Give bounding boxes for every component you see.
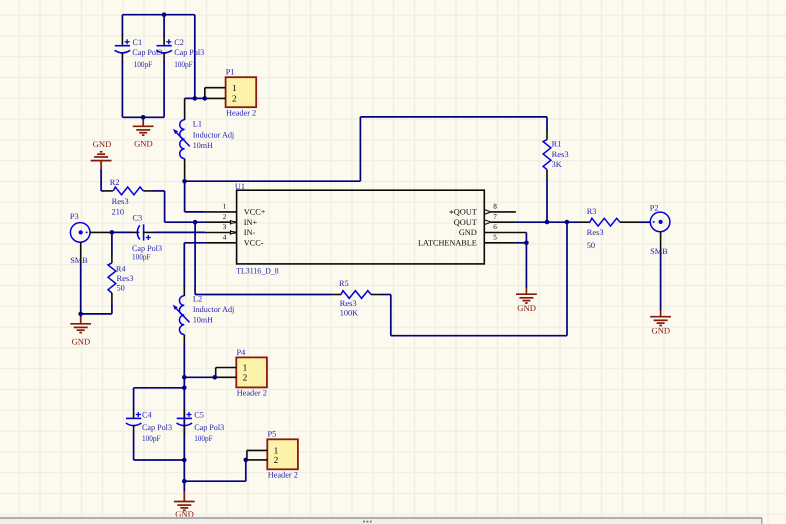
wire C1 bottom vertical bbox=[121, 61, 123, 117]
R4 bottom pin bbox=[111, 293, 113, 303]
svg-text:P2: P2 bbox=[650, 203, 659, 212]
scrollbar gripper dots bbox=[363, 521, 371, 523]
U1 pin 1 (VCC+) bbox=[205, 211, 237, 213]
R1 bottom pin bbox=[546, 170, 548, 180]
connector P4 (Header 2) bbox=[236, 357, 267, 387]
svg-text:5: 5 bbox=[493, 234, 497, 242]
wire gnd2 stem bbox=[100, 161, 102, 171]
ground GND1 bbox=[133, 126, 154, 135]
svg-text:100pF: 100pF bbox=[142, 434, 161, 443]
P1 pin1-pin2 drop wire bbox=[204, 88, 206, 99]
svg-text:LATCHENABLE: LATCHENABLE bbox=[418, 239, 477, 248]
svg-text:Res3: Res3 bbox=[587, 228, 604, 237]
node P5 tap bbox=[182, 479, 187, 484]
connector P3 (SMB) bbox=[70, 223, 90, 243]
svg-text:IN+: IN+ bbox=[244, 218, 258, 227]
U1 pin 5 (LATCHENABLE) bbox=[484, 242, 516, 244]
svg-text:R4: R4 bbox=[116, 264, 127, 273]
R2 right pin bbox=[143, 190, 154, 192]
wire feedback riser bbox=[566, 222, 568, 336]
node feedback junction bbox=[565, 220, 570, 225]
P5 pin 1 bbox=[247, 449, 267, 451]
svg-text:Res3: Res3 bbox=[112, 197, 129, 206]
U1 pin 3 (IN-) bbox=[205, 232, 231, 234]
node R1 bottom junction bbox=[545, 220, 550, 225]
R3 left pin bbox=[578, 221, 590, 223]
svg-text:GND: GND bbox=[134, 138, 153, 148]
C1 top pin bbox=[121, 35, 123, 45]
wire pin6 drop bbox=[525, 233, 527, 243]
R5 left pin bbox=[330, 294, 341, 296]
wire P5 drop bbox=[245, 460, 247, 481]
svg-text:C5: C5 bbox=[194, 411, 204, 420]
svg-text:Header 2: Header 2 bbox=[226, 109, 256, 118]
wire gnd3 stem bbox=[80, 314, 82, 318]
wire VCC+ riser bbox=[359, 117, 361, 181]
svg-text:Res3: Res3 bbox=[340, 299, 357, 308]
wire C4 bottom vertical bbox=[133, 434, 135, 460]
svg-text:L1: L1 bbox=[193, 120, 202, 129]
wire R5 drop bbox=[390, 295, 392, 336]
wire C2 top vertical bbox=[163, 15, 165, 37]
svg-text:210: 210 bbox=[112, 208, 124, 217]
ground GND5 bbox=[650, 317, 671, 326]
svg-text:IN-: IN- bbox=[244, 228, 256, 237]
wire top to R1 bbox=[360, 116, 547, 118]
horizontal scrollbar bbox=[0, 517, 762, 524]
P4 pin 1 bbox=[216, 367, 237, 369]
svg-text:C2: C2 bbox=[174, 38, 184, 47]
wire pin5 ext bbox=[516, 242, 527, 244]
svg-text:2: 2 bbox=[274, 456, 279, 466]
wire gnd6 stem bbox=[183, 491, 185, 502]
wire R4 top bbox=[111, 232, 113, 253]
wire to pin1 bbox=[185, 211, 205, 213]
svg-text:SMB: SMB bbox=[650, 247, 668, 256]
node P3/C3/R4 junction bbox=[110, 230, 115, 235]
ground GND6 bbox=[174, 502, 195, 511]
C4 top pin bbox=[133, 408, 135, 418]
node C4C5 bottom bbox=[182, 458, 187, 463]
C4 bottom pin bbox=[133, 425, 135, 435]
wire gnd4 stem bbox=[525, 288, 527, 294]
wire R4 to P3 gnd bbox=[81, 313, 112, 315]
L1 adjust arrow bbox=[177, 133, 190, 147]
svg-text:P1: P1 bbox=[226, 68, 235, 77]
resistor R3 bbox=[590, 218, 620, 226]
svg-text:C4: C4 bbox=[142, 411, 153, 420]
wire R4 bottom bbox=[111, 303, 113, 314]
svg-text:1: 1 bbox=[223, 203, 227, 211]
P3 bottom pin bbox=[80, 242, 82, 263]
P5 pin 2 bbox=[246, 459, 267, 461]
ground GND4 bbox=[516, 294, 537, 303]
U1 pin 6 (GND) bbox=[484, 232, 526, 234]
C2 top pin bbox=[163, 35, 165, 45]
node P5 pin2 junction bbox=[244, 458, 249, 463]
connector P5 (Header 2) bbox=[267, 439, 298, 469]
svg-text:1: 1 bbox=[232, 84, 237, 94]
svg-text:U1: U1 bbox=[235, 182, 245, 191]
wire pin4 to corner bbox=[184, 242, 205, 244]
wire VCC+ horizontal bbox=[185, 180, 361, 182]
svg-text:Cap Pol3: Cap Pol3 bbox=[132, 48, 162, 57]
P1 pin 1 bbox=[205, 87, 226, 89]
svg-text:50: 50 bbox=[587, 241, 595, 250]
wire C1 top vertical bbox=[121, 15, 123, 37]
node P3 gnd junction bbox=[78, 312, 83, 317]
svg-text:QOUT: QOUT bbox=[454, 218, 477, 227]
svg-text:50: 50 bbox=[117, 283, 125, 292]
svg-text:100pF: 100pF bbox=[174, 60, 193, 69]
svg-text:7: 7 bbox=[493, 213, 497, 221]
wire gnd4 down bbox=[525, 243, 527, 289]
svg-text:GND: GND bbox=[517, 303, 536, 313]
svg-text:1: 1 bbox=[274, 447, 279, 457]
node P1 pin2 junction bbox=[203, 96, 208, 101]
svg-text:6: 6 bbox=[493, 223, 497, 231]
node IN+ junction bbox=[193, 220, 198, 225]
node gnd stem junction bbox=[141, 115, 146, 120]
wire P1 to main vertical bbox=[185, 97, 205, 99]
ground GND3 bbox=[70, 324, 91, 333]
node C4 tap bbox=[182, 386, 187, 391]
C3 left pin bbox=[131, 231, 140, 233]
wire feedback bottom bbox=[391, 335, 567, 337]
svg-text:100pF: 100pF bbox=[194, 434, 213, 443]
svg-text:VCC+: VCC+ bbox=[244, 208, 266, 217]
wire R2 to IN+ corner bbox=[153, 190, 164, 192]
C1 bottom pin bbox=[121, 52, 123, 62]
wire L1 junction down bbox=[184, 181, 186, 212]
wire QOUT bbox=[516, 221, 579, 223]
svg-text:Inductor Adj: Inductor Adj bbox=[193, 305, 234, 314]
svg-text:GND: GND bbox=[72, 336, 91, 346]
U1 pin 4 (VCC-) bbox=[205, 242, 237, 244]
wire C4 bottom bbox=[134, 459, 185, 461]
svg-text:2: 2 bbox=[232, 95, 237, 105]
capacitor C2 bbox=[156, 39, 172, 53]
svg-text:1: 1 bbox=[243, 364, 248, 374]
svg-text:GND: GND bbox=[459, 228, 477, 237]
svg-text:Cap Pol3: Cap Pol3 bbox=[194, 423, 224, 432]
node P4 tap bbox=[182, 375, 187, 380]
wire R2 to pin2 bbox=[165, 221, 205, 223]
wire R5 right bbox=[381, 294, 391, 296]
wire C3 to pin3 bbox=[154, 231, 205, 233]
R5 right pin bbox=[371, 294, 382, 296]
svg-text:Cap Pol3: Cap Pol3 bbox=[174, 48, 204, 57]
wire vertical to P1 area bbox=[194, 15, 196, 99]
svg-text:8: 8 bbox=[493, 203, 497, 211]
wire R3 to P2 bbox=[640, 221, 651, 223]
wire P4 to main bbox=[184, 376, 215, 378]
svg-text:100pF: 100pF bbox=[134, 60, 153, 69]
svg-text:P5: P5 bbox=[268, 430, 277, 439]
P1 pin 2 bbox=[205, 97, 226, 99]
resistor R1 bbox=[543, 140, 551, 170]
svg-text:Header 2: Header 2 bbox=[237, 389, 267, 398]
svg-text:L2: L2 bbox=[193, 294, 202, 303]
svg-text:R2: R2 bbox=[110, 178, 120, 187]
wire P3 down bbox=[80, 263, 82, 314]
ground GND2 (flipped) bbox=[91, 152, 112, 161]
C5 top pin bbox=[183, 408, 185, 418]
P4 pin1-pin2 drop wire bbox=[215, 368, 217, 378]
svg-text:R5: R5 bbox=[339, 279, 349, 288]
L1 top pin bbox=[184, 98, 186, 120]
R4 top pin bbox=[111, 253, 113, 263]
inductor L2 bbox=[179, 296, 184, 335]
capacitor C5 bbox=[177, 412, 193, 426]
svg-text:10mH: 10mH bbox=[193, 315, 213, 324]
svg-text:10mH: 10mH bbox=[193, 141, 213, 150]
node C2 top junction bbox=[162, 12, 167, 17]
C5 bottom pin bbox=[183, 425, 185, 435]
L2 bottom pin bbox=[183, 335, 185, 345]
wire to R5 bbox=[195, 294, 331, 296]
svg-text:Cap Pol3: Cap Pol3 bbox=[142, 423, 172, 432]
svg-text:SMB: SMB bbox=[70, 256, 88, 265]
svg-text:R3: R3 bbox=[587, 207, 597, 216]
L2 adjust arrow bbox=[176, 309, 189, 323]
resistor R2 bbox=[113, 187, 143, 195]
wire gnd5 stem bbox=[660, 310, 662, 317]
wire VCC- down bbox=[183, 243, 185, 287]
P4 pin 2 bbox=[215, 376, 237, 378]
wire R1 top bbox=[546, 117, 548, 130]
capacitor C3 bbox=[137, 224, 151, 240]
svg-text:VCC-: VCC- bbox=[244, 239, 264, 248]
wire C4 top bbox=[134, 387, 185, 389]
L2 top pin bbox=[183, 286, 185, 296]
wire C1C2 top bbox=[122, 14, 194, 16]
wire C4 top vertical bbox=[133, 388, 135, 409]
svg-text:Header 2: Header 2 bbox=[268, 471, 298, 480]
inductor L1 bbox=[180, 120, 185, 159]
wire L2 down bbox=[183, 344, 185, 492]
wire P5 to main bbox=[184, 480, 246, 482]
C2 bottom pin bbox=[163, 52, 165, 62]
wire R2 drop bbox=[164, 191, 166, 222]
svg-text:P3: P3 bbox=[70, 212, 79, 221]
svg-text:Res3: Res3 bbox=[552, 150, 569, 159]
wire C1C2 bottom bbox=[122, 116, 164, 118]
node main vertical at P1 wire bbox=[193, 96, 198, 101]
svg-text:3: 3 bbox=[223, 223, 227, 231]
resistor R4 bbox=[108, 263, 116, 293]
op-amp U1 body (TL3116_D_8) bbox=[237, 190, 485, 264]
svg-text:Res3: Res3 bbox=[117, 274, 134, 283]
L1 bottom pin bbox=[184, 159, 186, 182]
R2 left pin bbox=[103, 190, 113, 192]
wire P3 to C3 bbox=[111, 231, 132, 233]
P3 right pin bbox=[90, 231, 112, 233]
node pin5/pin6 junction bbox=[524, 241, 529, 246]
P2 bottom pin bbox=[660, 232, 662, 253]
svg-text:4: 4 bbox=[223, 234, 227, 242]
svg-text:R1: R1 bbox=[552, 140, 562, 149]
U1 pin 7 (QOUT) bbox=[485, 220, 491, 225]
node L1 bottom junction bbox=[182, 179, 187, 184]
wire P2 down bbox=[660, 252, 662, 311]
svg-text:GND: GND bbox=[651, 326, 670, 336]
svg-text:P4: P4 bbox=[237, 348, 247, 357]
capacitor C4 bbox=[126, 412, 142, 426]
svg-text:3K: 3K bbox=[552, 160, 562, 169]
svg-text:2: 2 bbox=[243, 373, 248, 383]
R1 top pin bbox=[546, 129, 548, 139]
R3 right pin bbox=[620, 221, 640, 223]
C3 right pin bbox=[144, 231, 155, 233]
svg-text:C3: C3 bbox=[133, 213, 143, 222]
connector P1 (Header 2) bbox=[226, 77, 257, 107]
svg-text:Inductor Adj: Inductor Adj bbox=[193, 130, 234, 139]
wire gnd2 to R2 bbox=[101, 190, 103, 192]
svg-text:2: 2 bbox=[223, 213, 227, 221]
wire gnd1 stem bbox=[142, 117, 144, 120]
connector P2 (SMB) bbox=[650, 212, 670, 232]
U1 pin 2 (IN+) bbox=[205, 221, 231, 223]
svg-text:100K: 100K bbox=[340, 308, 358, 317]
wire IN+ down bbox=[194, 222, 196, 294]
node P4 pin2 junction bbox=[213, 375, 218, 380]
svg-text:GND: GND bbox=[93, 139, 112, 149]
svg-text:TL3116_D_8: TL3116_D_8 bbox=[236, 266, 279, 275]
svg-text:100pF: 100pF bbox=[132, 252, 151, 261]
P5 pin1-pin2 drop wire bbox=[246, 450, 248, 460]
wire C2 bottom vertical bbox=[163, 61, 165, 117]
capacitor C1 bbox=[115, 39, 131, 53]
U1 pin 8 (*QOUT) bbox=[485, 210, 491, 215]
resistor R5 bbox=[341, 291, 371, 299]
wire R1 bottom bbox=[546, 180, 548, 222]
svg-text:C1: C1 bbox=[133, 38, 143, 47]
